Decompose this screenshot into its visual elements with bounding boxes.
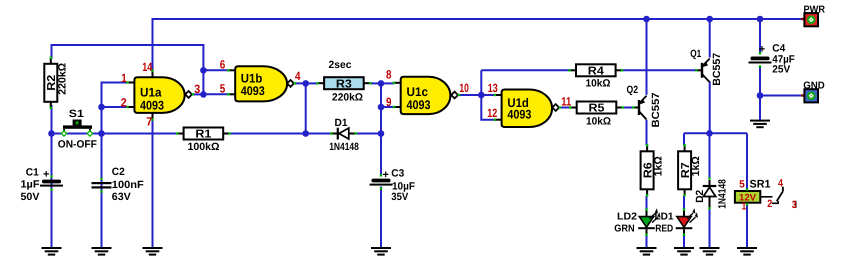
svg-text:C3: C3 — [391, 167, 404, 179]
wire to R7 top — [683, 133, 685, 145]
inverter bubble U1a — [185, 91, 192, 98]
wire Q1 collector down — [709, 82, 711, 134]
node VCC Q2 junction — [643, 16, 650, 23]
node B pin9 junction — [378, 104, 385, 111]
wire U1c out to node — [459, 94, 482, 96]
node U1a pin2 junction — [98, 104, 105, 111]
wire to R3 left — [306, 82, 318, 84]
wire node B vertical to C3 — [380, 83, 382, 175]
wire R4 right to Q1 base — [622, 69, 696, 71]
node U1b output junction — [302, 80, 309, 87]
wire U1a pin7 to ground — [152, 113, 154, 247]
capacitor C2 100nF — [92, 178, 112, 193]
wire U1d out to R5 — [560, 107, 571, 109]
svg-text:+: + — [43, 169, 49, 181]
svg-text:LD1: LD1 — [655, 212, 674, 223]
wire R6 to LD2 — [646, 196, 648, 210]
svg-text:5: 5 — [739, 179, 745, 191]
svg-text:+: + — [383, 169, 389, 181]
U1c pin stubs — [393, 82, 460, 109]
svg-text:3: 3 — [792, 199, 797, 211]
wire to U1d pin13 — [481, 94, 495, 96]
inverter bubble U1b — [287, 80, 294, 87]
svg-text:1: 1 — [121, 71, 127, 85]
ground (C4) — [750, 120, 770, 129]
wire node to D2 cathode — [709, 133, 711, 177]
svg-text:1N4148: 1N4148 — [329, 141, 359, 153]
svg-text:13: 13 — [488, 81, 498, 95]
wire R1 right to node — [229, 133, 306, 135]
relay SR1 12V — [735, 188, 760, 205]
wire LD2 to ground — [646, 235, 648, 248]
svg-text:PWR: PWR — [804, 5, 826, 16]
transistor Q2 BC557 — [632, 96, 646, 120]
node U1a output junction — [200, 91, 207, 98]
node U1b pin6 junction — [200, 67, 207, 74]
ground (C1) — [42, 247, 62, 256]
node R1-D1 junction — [302, 130, 309, 137]
wire to U1b pin6 — [203, 69, 229, 71]
resistor R1 — [176, 128, 231, 141]
svg-text:BC557: BC557 — [650, 92, 662, 127]
resistor R4 — [568, 64, 623, 77]
wire node vertical to U1d pin12 — [481, 70, 495, 119]
wire U1a out to node — [193, 93, 204, 95]
wire to U1c pin9 — [381, 106, 395, 108]
wire LD1 to ground — [683, 235, 685, 248]
node B D1 junction — [378, 130, 385, 137]
svg-text:ON-OFF: ON-OFF — [58, 139, 98, 151]
ground (D2) — [700, 247, 720, 256]
svg-text:50V: 50V — [21, 191, 40, 203]
wire Q1 emitter to VCC — [709, 19, 711, 58]
op-amp U1b (NAND 4093) — [235, 66, 287, 101]
capacitor C4 (electrolytic) — [749, 43, 772, 67]
svg-text:220kΩ: 220kΩ — [332, 91, 363, 103]
wire R5 right to Q2 base — [622, 107, 634, 109]
svg-text:8: 8 — [386, 68, 392, 82]
svg-text:4093: 4093 — [241, 84, 265, 98]
wire R3 right to node B — [370, 82, 382, 84]
node B R3-right junction — [378, 80, 385, 87]
svg-text:35V: 35V — [391, 191, 408, 203]
capacitor C1 (electrolytic) — [40, 169, 63, 191]
wire R2 top to U1b inputs node — [52, 45, 204, 94]
terminal PWR — [804, 13, 818, 26]
terminal GND — [804, 89, 818, 102]
resistor R7 — [678, 144, 702, 196]
terminal PWR pin tick — [801, 18, 803, 20]
wire D1 anode to node B — [356, 133, 382, 135]
svg-text:D1: D1 — [335, 117, 348, 129]
wire U1a pin1 to input node — [102, 83, 128, 134]
svg-text:100nF: 100nF — [112, 179, 145, 191]
switch S1 ON-OFF — [60, 120, 93, 138]
svg-text:4: 4 — [295, 69, 301, 83]
svg-text:R3: R3 — [336, 78, 352, 90]
wire U1a pin2 — [102, 106, 128, 108]
wire to R4 left — [481, 69, 570, 71]
svg-text:+: + — [759, 43, 765, 55]
terminal GND pin tick — [801, 94, 803, 96]
svg-text:2: 2 — [121, 96, 127, 110]
wire Q2 collector to R6 — [646, 120, 648, 146]
capacitor C3 (electrolytic) — [370, 169, 393, 190]
svg-text:Q1: Q1 — [690, 48, 701, 60]
U1b pin stubs — [227, 69, 296, 95]
wire Q1 collector row — [684, 132, 747, 134]
svg-text:100kΩ: 100kΩ — [188, 141, 220, 153]
op-amp U1d (NAND 4093) — [502, 90, 552, 128]
resistor R6 — [641, 144, 665, 196]
diode D2 1N4148 — [703, 177, 717, 209]
svg-text:R4: R4 — [588, 66, 605, 78]
LED LD1 red — [676, 208, 698, 236]
relay SR1 contact — [760, 187, 795, 208]
wire node to U1b pin5 — [203, 93, 229, 95]
svg-text:1kΩ: 1kΩ — [653, 156, 665, 176]
svg-text:GND: GND — [803, 81, 825, 92]
svg-text:1: 1 — [742, 201, 747, 213]
svg-text:S1: S1 — [69, 108, 84, 120]
U1d pin stubs — [494, 94, 562, 121]
svg-text:GRN: GRN — [614, 223, 635, 234]
svg-text:5: 5 — [220, 82, 226, 96]
svg-text:12: 12 — [487, 106, 497, 120]
wire U1b output node vertical — [295, 83, 306, 133]
LED LD2 green — [638, 208, 660, 236]
svg-text:2: 2 — [767, 198, 772, 210]
diode D1 1N4148 — [330, 128, 357, 140]
svg-text:14: 14 — [142, 60, 152, 74]
op-amp U1c (NAND 4093) — [401, 77, 451, 114]
svg-text:U1c: U1c — [407, 85, 429, 99]
resistor R2 — [44, 57, 68, 109]
svg-text:C1: C1 — [26, 167, 39, 179]
wire to R1 left — [102, 133, 178, 135]
op-amp U1a (NAND 4093) — [134, 77, 184, 113]
svg-text:4: 4 — [778, 178, 783, 190]
transistor Q1 BC557 — [695, 59, 710, 83]
wire VCC top rail — [153, 19, 802, 72]
wire SR1 coil bottom to ground — [746, 204, 748, 247]
svg-text:7: 7 — [146, 115, 152, 129]
wire C4 to GND node — [759, 67, 761, 120]
node U1c output junction — [478, 92, 485, 99]
svg-text:63V: 63V — [112, 191, 131, 203]
svg-text:SR1: SR1 — [750, 179, 771, 191]
svg-text:R5: R5 — [589, 103, 606, 115]
ground (LD1) — [674, 247, 694, 256]
svg-text:U1a: U1a — [140, 85, 162, 99]
inverter bubble U1d — [552, 104, 559, 111]
node Q1 collector D2 junction — [706, 130, 713, 137]
ground (SR1) — [737, 247, 757, 256]
node S1-left junction — [48, 130, 55, 137]
svg-text:LD2: LD2 — [617, 212, 637, 223]
wire to SR1 coil top — [746, 133, 748, 190]
wire Q2 emitter to VCC — [646, 19, 648, 95]
node GND C4 junction — [757, 92, 764, 99]
svg-text:25V: 25V — [772, 64, 790, 76]
svg-text:10kΩ: 10kΩ — [586, 115, 611, 127]
svg-text:BC557: BC557 — [711, 53, 723, 86]
resistor R3 — [316, 77, 371, 90]
node VCC Q1 junction — [706, 16, 713, 23]
svg-text:4093: 4093 — [407, 98, 431, 112]
wire C3 to ground — [380, 187, 382, 248]
U1a pin stubs — [126, 70, 194, 121]
svg-text:C2: C2 — [112, 166, 125, 178]
node VCC C4 junction — [757, 16, 764, 23]
svg-text:220kΩ: 220kΩ — [56, 63, 68, 95]
svg-text:4093: 4093 — [507, 107, 531, 121]
svg-text:3: 3 — [194, 82, 200, 96]
wire D2 anode to ground — [709, 208, 711, 247]
svg-text:1kΩ: 1kΩ — [690, 156, 702, 176]
ground (LD2) — [637, 247, 657, 256]
svg-text:6: 6 — [220, 58, 226, 72]
inverter bubble U1c — [451, 92, 458, 99]
svg-text:R1: R1 — [195, 129, 212, 141]
wire to U1c pin8 — [381, 82, 395, 84]
svg-text:RED: RED — [655, 223, 673, 234]
svg-text:4093: 4093 — [140, 99, 164, 113]
node S1-right junction — [98, 130, 105, 137]
wire R7 to LD1 — [683, 196, 685, 210]
ground (C2) — [92, 247, 112, 256]
wire VCC to C4 — [759, 19, 761, 53]
ground (C3) — [371, 247, 391, 256]
svg-text:D2: D2 — [694, 190, 706, 203]
svg-text:10: 10 — [459, 81, 469, 95]
ground (U1a pin7) — [143, 247, 163, 256]
resistor R5 — [569, 102, 624, 115]
svg-text:1µF: 1µF — [21, 178, 41, 190]
svg-text:11: 11 — [561, 94, 571, 108]
svg-text:2sec: 2sec — [329, 59, 352, 71]
wire to D1 cathode — [306, 133, 331, 135]
wire GND node to GND terminal — [760, 95, 801, 97]
svg-text:9: 9 — [386, 95, 392, 109]
wire R2 bottom / C1 column — [51, 105, 53, 247]
svg-text:1N4148: 1N4148 — [716, 179, 728, 209]
svg-text:Q2: Q2 — [627, 84, 639, 96]
wire C2 column — [101, 134, 103, 248]
wire S1 row — [52, 133, 102, 135]
svg-text:10kΩ: 10kΩ — [586, 78, 611, 90]
